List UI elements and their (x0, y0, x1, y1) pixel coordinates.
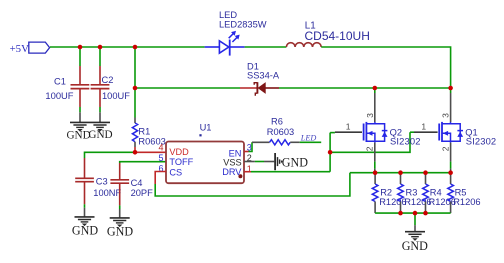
node rail R4 (423, 170, 428, 175)
ground C1 (66, 122, 90, 141)
wire R6 to LED net (290, 141, 321, 143)
svg-text:R1206: R1206 (379, 197, 406, 207)
svg-text:100UF: 100UF (102, 91, 130, 101)
U1 pin names (169, 147, 242, 178)
wire D1 line left (135, 87, 257, 89)
svg-text:100NF: 100NF (93, 188, 121, 198)
wire gate net (330, 132, 438, 152)
ground C2 (88, 122, 112, 141)
svg-text:LED: LED (300, 134, 317, 143)
svg-text:VDD: VDD (169, 147, 189, 157)
ground C4 (107, 218, 133, 238)
wire Q2 drain (374, 88, 376, 122)
capacitor C2 (91, 75, 131, 101)
resistor R5 (448, 173, 481, 213)
node bottom R4 (423, 211, 428, 216)
svg-text:GND: GND (402, 239, 428, 253)
svg-text:R0603: R0603 (267, 127, 294, 137)
svg-text:SS34-A: SS34-A (247, 70, 280, 80)
power port +5V (10, 42, 50, 55)
svg-text:C4: C4 (131, 178, 143, 188)
node bottom R3 (398, 211, 403, 216)
svg-text:GND: GND (66, 130, 90, 142)
svg-text:SI2302: SI2302 (466, 136, 497, 147)
wire C2 branch (99, 47, 101, 84)
node +5V/C1 (78, 45, 83, 50)
wire Q1 drain (450, 88, 452, 122)
svg-text:U1: U1 (200, 123, 212, 133)
resistor R1 (132, 88, 165, 152)
svg-text:C3: C3 (96, 177, 108, 187)
node Q2 drain (373, 86, 378, 91)
transistor Q1 (439, 122, 496, 147)
capacitor C3 (75, 177, 121, 199)
svg-text:R1: R1 (138, 126, 150, 136)
resistor R6 (267, 117, 294, 145)
U1 pin numbers (158, 142, 251, 173)
wire Q1 source (450, 143, 452, 172)
svg-text:GND: GND (107, 224, 133, 238)
svg-text:CS: CS (169, 167, 182, 177)
wire C4 to ground (119, 184, 121, 218)
wire main left drop (134, 47, 136, 88)
resistor R4 (423, 173, 456, 213)
LED D? leads (205, 46, 245, 48)
svg-text:1: 1 (346, 121, 351, 131)
svg-text:SI2302: SI2302 (390, 136, 421, 147)
wire L1 to right drop (321, 47, 450, 88)
node rail R5 (448, 170, 453, 175)
node VDD (133, 150, 138, 155)
wire Q2 source (374, 143, 376, 172)
wire DRV run and riser (244, 133, 330, 172)
wire bottom rail (375, 212, 451, 214)
wire TOFF stub to C4 (120, 162, 166, 180)
svg-text:100UF: 100UF (45, 90, 73, 101)
svg-text:20PF: 20PF (131, 188, 154, 198)
wire D1 line right (265, 87, 450, 89)
svg-text:VSS: VSS (223, 158, 241, 168)
node +5V/drop (133, 45, 138, 50)
resistor R2 (372, 173, 406, 213)
wire LED to L1 (245, 46, 287, 48)
resistor R3 (398, 173, 432, 213)
svg-text:R6: R6 (271, 117, 283, 127)
svg-text:LED2835W: LED2835W (219, 19, 267, 29)
net label LED (300, 134, 317, 143)
node rail R3 (398, 170, 403, 175)
svg-text:+5V: +5V (10, 43, 29, 55)
node bottom gnd (413, 211, 418, 216)
svg-text:TOFF: TOFF (169, 157, 193, 167)
wire to C3 (85, 152, 136, 177)
capacitor C1 (45, 77, 89, 101)
svg-text:R1206: R1206 (404, 197, 431, 207)
wire C3 to ground (84, 182, 86, 217)
svg-text:2: 2 (365, 146, 375, 151)
svg-text:2: 2 (440, 146, 450, 151)
node +5V/C2 (98, 45, 103, 50)
wire +5V rail top (50, 46, 205, 48)
inductor L1 (286, 21, 369, 47)
svg-text:5: 5 (158, 153, 163, 163)
node rail R2 (373, 170, 378, 175)
ground VSS (sideways) (275, 153, 308, 170)
wire CS pin run (155, 172, 350, 197)
svg-text:GND: GND (282, 156, 308, 170)
svg-text:GND: GND (88, 129, 112, 141)
diode D1 (247, 61, 280, 95)
wire VSS stub (244, 161, 274, 163)
ground C3 (72, 217, 98, 237)
svg-text:DRV: DRV (222, 167, 242, 177)
svg-text:3: 3 (365, 113, 375, 118)
op-amp U1 box (166, 123, 244, 184)
svg-text:C1: C1 (54, 77, 66, 87)
node D1 left (133, 86, 138, 91)
wire ground stem (414, 213, 416, 232)
node Q1 drain (448, 86, 453, 91)
Q2 pin numbers (346, 113, 375, 151)
wire VDD stub (135, 151, 166, 153)
svg-text:4: 4 (158, 142, 163, 152)
svg-text:1: 1 (421, 122, 426, 132)
svg-text:GND: GND (72, 223, 98, 237)
wire C2 to ground (99, 89, 101, 122)
wire source rail (350, 172, 451, 174)
node gate/DRV (328, 150, 333, 155)
svg-text:C2: C2 (102, 75, 114, 85)
ground bottom (402, 232, 428, 253)
svg-text:R1206: R1206 (453, 197, 480, 207)
capacitor C4 (110, 178, 153, 198)
Q1 pin numbers (421, 113, 450, 151)
wire C1 branch (79, 47, 81, 84)
wire C1 to ground (79, 89, 81, 122)
LED symbol (219, 10, 267, 56)
svg-text:3: 3 (441, 113, 451, 118)
wire EN stub and riser (244, 142, 270, 151)
svg-text:CD54-10UH: CD54-10UH (305, 29, 370, 43)
transistor Q2 (364, 122, 421, 147)
